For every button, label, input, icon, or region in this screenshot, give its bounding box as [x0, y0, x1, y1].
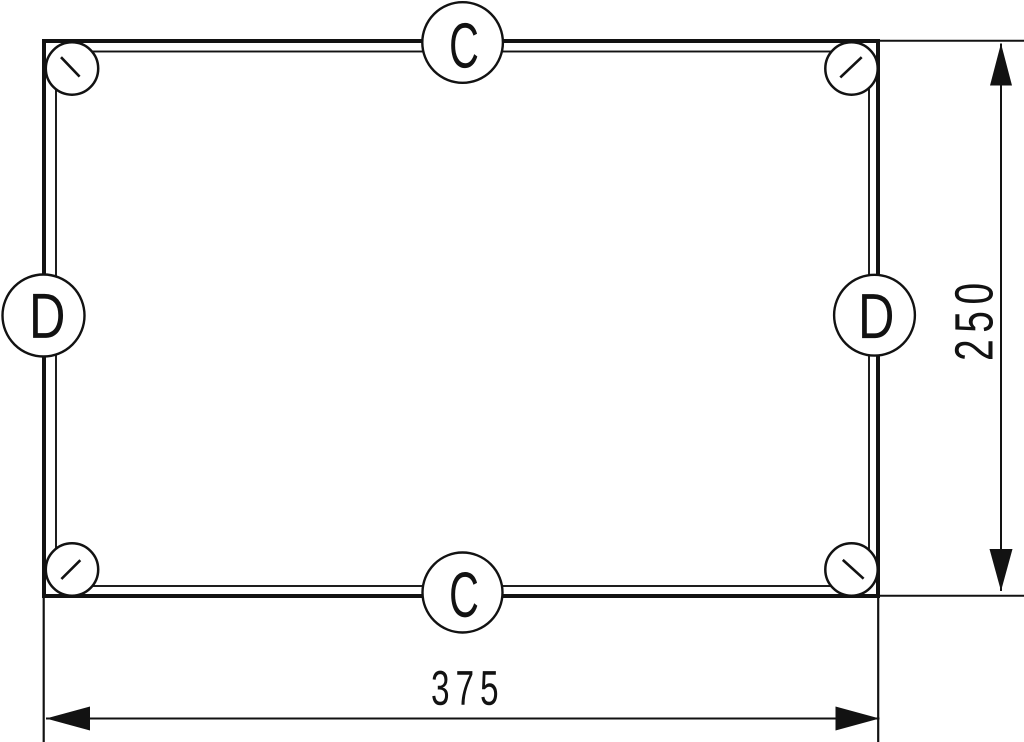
label circle D right: [834, 275, 915, 356]
arrowhead right of 375 dimension: [836, 707, 880, 731]
label circle C top: [422, 2, 503, 83]
extension line top (for 250 dim): [880, 40, 1024, 42]
label circle C bottom: [423, 553, 503, 633]
arrowhead bottom of 250 dimension: [990, 549, 1013, 591]
label circle D left: [3, 275, 85, 357]
dimension line vertical 250: [1000, 44, 1002, 592]
dimension text 375: [432, 671, 448, 706]
enclosure outer body rectangle: [44, 41, 878, 596]
corner screw top-right: [825, 42, 877, 94]
arrowhead left of 375 dimension: [46, 707, 90, 731]
extension line bottom right (for 250 dim): [880, 595, 1024, 597]
arrowhead top of 250 dimension: [990, 44, 1012, 86]
dimension text 250 (rotated): [955, 341, 993, 359]
corner screw top-left: [46, 42, 98, 94]
dimension line horizontal 375: [46, 718, 880, 720]
corner screw bottom-left: [46, 543, 98, 595]
extension line right vertical (for 375 dim): [877, 597, 879, 742]
corner screw bottom-right: [825, 543, 877, 595]
enclosure lid inner rectangle: [56, 52, 869, 587]
extension line left vertical (for 375 dim): [43, 597, 45, 742]
